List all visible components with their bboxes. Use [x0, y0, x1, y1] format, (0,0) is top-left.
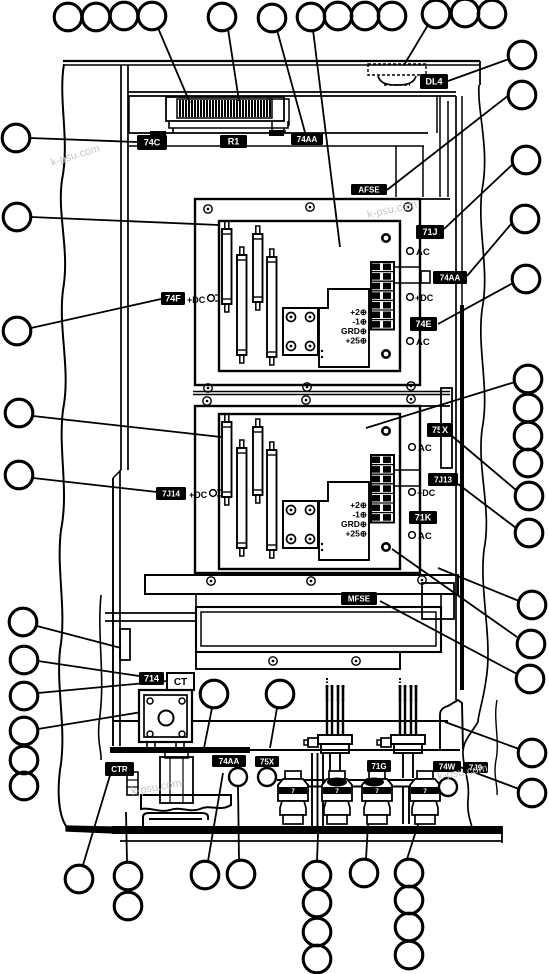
- svg-text:714: 714: [144, 674, 159, 684]
- callout balloon 4: [138, 2, 166, 30]
- leader line 4: [313, 30, 340, 247]
- cabinet front band upper: [128, 91, 456, 93]
- svg-text:AC: AC: [416, 247, 430, 258]
- callout balloon 19: [514, 365, 542, 393]
- resistor R1 hatched element: [177, 99, 272, 118]
- resistor R1 housing: [166, 97, 284, 121]
- bus bar horizontal: [277, 780, 424, 787]
- svg-text:AFSE: AFSE: [358, 185, 380, 194]
- callout balloon 24: [515, 519, 543, 547]
- callout balloon 53: [395, 913, 423, 941]
- label 7J14: [156, 487, 186, 500]
- contactor stack 1: [304, 678, 352, 778]
- svg-text:+2⊕: +2⊕: [350, 307, 367, 317]
- chassis shelf screws: [269, 657, 277, 665]
- upper module board screw top: [381, 233, 391, 243]
- node hole B: [258, 768, 276, 786]
- insulator cap ellipse 2: [327, 778, 347, 787]
- terminal DC lower: [409, 488, 436, 498]
- callout balloon 8: [324, 2, 352, 30]
- svg-text:7: 7: [335, 788, 339, 795]
- terminal AC upper1: [407, 247, 430, 258]
- resistor R1 left foot: [150, 131, 166, 137]
- label 75X bottom: [255, 756, 279, 767]
- lower module fuse cylinder 4: [267, 442, 277, 558]
- band line upper: [193, 391, 450, 393]
- leader line 32: [317, 834, 318, 861]
- label 75X right: [427, 423, 453, 437]
- leader line 23: [33, 478, 157, 492]
- callout balloon 50: [350, 859, 378, 887]
- callout balloon 12: [451, 0, 479, 27]
- leader line 18: [452, 764, 519, 789]
- resistor R1 right foot: [269, 130, 284, 136]
- upper module frame screws top: [204, 205, 212, 213]
- callout balloon 27: [516, 665, 544, 693]
- label MFSE: [341, 592, 377, 605]
- left torn edge secondary: [99, 595, 102, 760]
- right torn squiggle: [495, 700, 497, 795]
- vertical support c: [439, 96, 441, 197]
- callout balloon 32: [3, 317, 31, 345]
- label 74AA right: [433, 271, 467, 284]
- label 71K: [409, 511, 437, 524]
- terminal AC lower2: [409, 531, 432, 542]
- label CT: [167, 673, 194, 690]
- svg-text:7: 7: [291, 788, 295, 795]
- leader line 36: [270, 708, 277, 748]
- lower module fuse cylinder 1: [222, 414, 232, 505]
- upper module fuse cylinder 3: [253, 226, 263, 310]
- svg-text:+25⊕: +25⊕: [345, 336, 367, 346]
- callout balloon 3: [110, 2, 138, 30]
- leader line 24: [37, 626, 121, 648]
- insulator cap ellipse 3: [364, 778, 384, 787]
- insulator 4: [410, 771, 440, 824]
- leader line 30: [208, 773, 223, 861]
- right wall inner: [461, 96, 463, 305]
- svg-text:74AA: 74AA: [440, 273, 461, 282]
- base bar left taper: [66, 826, 112, 833]
- chassis shelf inner rect: [201, 612, 436, 646]
- upper module frame: [195, 199, 420, 385]
- lower module board screw top: [381, 426, 391, 436]
- callout balloon 13: [478, 0, 506, 28]
- svg-text:DL4: DL4: [425, 77, 442, 87]
- svg-text:-1⊕: -1⊕: [352, 510, 367, 520]
- label 7J9: [463, 762, 488, 773]
- callout balloon 25: [518, 591, 546, 619]
- DL4 dashed receptacle: [368, 64, 426, 75]
- callout balloon 28: [518, 739, 546, 767]
- shelf left arm bottom: [105, 620, 196, 622]
- callout balloon 23: [515, 482, 543, 510]
- terminal lug upper: [421, 271, 430, 283]
- svg-text:74F: 74F: [165, 294, 181, 304]
- leader line 12: [452, 436, 516, 490]
- callout balloon 14: [508, 41, 536, 69]
- svg-text:75X: 75X: [432, 425, 448, 435]
- leader line 9: [467, 223, 512, 276]
- solenoid skirt: [141, 795, 231, 811]
- svg-text:7J14: 7J14: [162, 489, 180, 498]
- leader line 14: [438, 568, 519, 601]
- callout balloon 39: [10, 746, 38, 774]
- callout balloon 41: [65, 865, 93, 893]
- base bar heavy: [112, 826, 502, 834]
- callout balloon 43: [114, 892, 142, 920]
- leader line 13: [458, 484, 516, 528]
- callout balloon 44: [191, 861, 219, 889]
- shelf right vertical: [436, 96, 438, 133]
- bent tube handle: [143, 813, 208, 826]
- lower module relay block: [283, 501, 318, 548]
- left wall line inner: [127, 65, 129, 470]
- vertical support a: [395, 146, 397, 197]
- callout balloon 51: [395, 859, 423, 887]
- band line lower: [193, 394, 450, 396]
- terminal AC upper2: [407, 337, 430, 348]
- leader line 3: [277, 30, 306, 136]
- leader line 11: [366, 382, 515, 428]
- upper module panel inner line: [399, 201, 401, 384]
- leader line 21: [31, 299, 161, 328]
- right side bracket: [440, 700, 463, 749]
- svg-text:7: 7: [423, 788, 427, 795]
- leader line 22: [33, 416, 221, 437]
- svg-text:AC: AC: [416, 337, 430, 348]
- svg-text:+DC: +DC: [189, 490, 208, 500]
- CT feet: [147, 742, 155, 750]
- band screws bottom: [207, 577, 215, 585]
- node hole C: [439, 778, 457, 796]
- base right end: [501, 826, 503, 843]
- label 74F: [161, 292, 185, 305]
- svg-text:71G: 71G: [371, 762, 386, 771]
- callout balloon 22: [514, 449, 542, 477]
- right wall bracket: [441, 388, 452, 468]
- right lower bracket: [422, 583, 454, 619]
- callout balloon 49: [303, 945, 331, 973]
- callout balloon 31: [3, 203, 31, 231]
- svg-text:74E: 74E: [415, 319, 431, 329]
- leader line 15: [392, 549, 517, 637]
- insulator 2: [322, 771, 352, 824]
- leader line 1: [158, 28, 190, 103]
- right torn edge wavy: [478, 85, 488, 722]
- cabinet top edge: [63, 60, 480, 62]
- leader line 29: [126, 812, 127, 862]
- leader line 8: [444, 164, 513, 229]
- wall terminal block: [127, 772, 138, 795]
- shelf side vertical right: [440, 594, 442, 607]
- label 74AA top: [291, 133, 323, 145]
- callout balloon 34: [5, 461, 33, 489]
- lower module terminal module: [319, 482, 369, 560]
- left torn edge wavy: [59, 64, 66, 826]
- chassis shelf front face: [196, 652, 400, 669]
- insulator 3: [362, 771, 392, 824]
- resistor R1 right bracket: [267, 99, 289, 131]
- callout balloon 16: [512, 146, 540, 174]
- current transformer CT body: [139, 690, 192, 742]
- callout balloon 17: [511, 205, 539, 233]
- callout balloon 46: [303, 861, 331, 889]
- svg-text:GRD⊕: GRD⊕: [341, 519, 367, 529]
- wall clip box: [120, 629, 130, 660]
- callout balloon 5: [208, 3, 236, 31]
- terminal lug wires lower: [394, 469, 421, 471]
- lower module dots: [321, 543, 323, 545]
- node hole A: [229, 768, 247, 786]
- callout balloon 48: [303, 918, 331, 946]
- leader line 6: [448, 59, 509, 81]
- label AFSE: [351, 184, 387, 195]
- svg-text:+25⊕: +25⊕: [345, 529, 367, 539]
- callout balloon 52: [395, 886, 423, 914]
- terminal lug wires upper: [394, 266, 421, 268]
- right wall upper: [455, 96, 457, 700]
- leader line 33: [366, 772, 371, 859]
- svg-text:+DC: +DC: [417, 488, 436, 498]
- leader line 26: [38, 681, 167, 693]
- contactor stack 2: [377, 678, 425, 778]
- callout balloon 40: [10, 772, 38, 800]
- upper module relay block: [283, 308, 318, 355]
- leader line 34: [407, 806, 424, 859]
- svg-text:+2⊕: +2⊕: [350, 500, 367, 510]
- callout balloon 47: [303, 889, 331, 917]
- callout balloon 11: [422, 0, 450, 28]
- chassis shelf: [196, 607, 441, 652]
- leader line 31: [238, 786, 239, 860]
- label 74AA bottom: [212, 755, 246, 767]
- shelf left arm top: [105, 612, 196, 614]
- cabinet top-right corner edge: [479, 61, 481, 85]
- callout balloon 2: [82, 3, 110, 31]
- 74F DC terminal: [187, 295, 219, 305]
- svg-text:AC: AC: [418, 443, 432, 454]
- svg-text:7J13: 7J13: [434, 475, 452, 484]
- terminal DC upper: [407, 293, 434, 303]
- callout balloon 1: [54, 3, 82, 31]
- terminal AC lower1: [409, 443, 432, 454]
- leader line 28: [83, 772, 111, 865]
- callout balloon 38: [10, 717, 38, 745]
- callout balloon 56: [266, 680, 294, 708]
- base bottom line: [120, 840, 502, 842]
- vertical support b: [422, 146, 424, 197]
- band screw row 2: [203, 397, 211, 405]
- lower module board screw bottom: [381, 542, 391, 552]
- left wall line outer: [120, 65, 122, 470]
- leader line 7: [387, 95, 509, 190]
- cabinet front band lower: [128, 95, 456, 97]
- label 71G: [367, 760, 391, 772]
- lower module inner board: [219, 414, 400, 569]
- label DL4: [420, 74, 448, 89]
- solenoid coil: [160, 751, 193, 803]
- upper module fuse cylinder 4: [267, 249, 277, 365]
- shelf left vertical: [128, 96, 130, 133]
- callout balloon 42: [114, 862, 142, 890]
- resistor R1 base bracket: [169, 121, 288, 133]
- label 74C: [137, 135, 167, 150]
- leader line 2: [228, 29, 239, 101]
- lower module panel inner line: [399, 408, 401, 570]
- label 74W: [433, 761, 461, 772]
- svg-text:-1⊕: -1⊕: [352, 317, 367, 327]
- callout balloon 36: [10, 646, 38, 674]
- right wall heavy: [460, 305, 464, 690]
- upper module fuse cylinder 1: [222, 221, 232, 312]
- leader line 16: [380, 601, 517, 674]
- svg-text:74AA: 74AA: [297, 135, 318, 144]
- svg-text:71J: 71J: [422, 227, 437, 237]
- upper module terminal strip: [371, 262, 394, 330]
- bus channel 2 lower: [403, 787, 409, 824]
- label 71J: [416, 225, 444, 239]
- right lower bracket line: [427, 593, 441, 595]
- leader line 20: [31, 217, 219, 225]
- callout balloon 15: [508, 81, 536, 109]
- shelf front line: [129, 145, 424, 147]
- svg-text:R1: R1: [228, 137, 240, 147]
- cabinet top edge inner: [63, 64, 480, 66]
- label 714: [139, 672, 164, 685]
- svg-text:+DC: +DC: [415, 293, 434, 303]
- callout balloon 7: [297, 3, 325, 31]
- callout balloon 9: [351, 2, 379, 30]
- callout balloon 10: [378, 2, 406, 30]
- mounting bar thin: [250, 749, 460, 751]
- callout balloon 45: [227, 860, 255, 888]
- insulator 1: [278, 771, 308, 824]
- callout balloon 55: [200, 680, 228, 708]
- DL4 socket body: [378, 76, 416, 85]
- callout balloon 54: [395, 941, 423, 969]
- upper module dots: [321, 350, 323, 352]
- lower module frame: [195, 406, 420, 573]
- leader line 19: [30, 138, 137, 142]
- upper module inner board: [219, 221, 400, 371]
- module bottom band: [145, 575, 458, 594]
- right torn edge lower: [463, 722, 478, 827]
- band screw row 1: [204, 384, 212, 392]
- leader line 10: [438, 283, 513, 324]
- svg-text:74AA: 74AA: [219, 757, 240, 766]
- callout balloon 29: [518, 779, 546, 807]
- callout balloon 33: [5, 399, 33, 427]
- svg-text:7: 7: [375, 788, 379, 795]
- lower module terminal strip: [371, 455, 394, 523]
- 7J14 DC terminal: [189, 490, 221, 500]
- svg-text:CTR: CTR: [111, 765, 128, 774]
- mounting bar heavy: [110, 747, 250, 753]
- svg-text:CT: CT: [174, 677, 187, 688]
- shelf edge line: [129, 132, 428, 134]
- callout balloon 21: [514, 422, 542, 450]
- callout balloon 20: [514, 394, 542, 422]
- label R1: [220, 135, 247, 148]
- callout balloon 35: [9, 608, 37, 636]
- left wall lower inner: [119, 470, 121, 746]
- callout balloon 37: [10, 682, 38, 710]
- leader line 5: [404, 25, 428, 65]
- leader line 27: [38, 709, 160, 729]
- lower chassis front edge: [112, 720, 448, 722]
- svg-text:MFSE: MFSE: [348, 594, 371, 603]
- shelf side vertical left: [195, 594, 197, 607]
- upper module terminal module: [319, 289, 369, 367]
- svg-text:GRD⊕: GRD⊕: [341, 326, 367, 336]
- left wall lower outer: [112, 478, 114, 746]
- bus channel vertical: [312, 753, 323, 826]
- callout balloon 26: [517, 630, 545, 658]
- label CTR: [105, 762, 134, 776]
- svg-text:71K: 71K: [415, 513, 432, 523]
- svg-text:75X: 75X: [260, 757, 275, 766]
- svg-text:74C: 74C: [144, 138, 161, 148]
- leader line 17: [445, 722, 519, 749]
- lower module fuse cylinder 3: [253, 419, 263, 503]
- upper module fuse cylinder 2: [237, 247, 247, 363]
- svg-text:AC: AC: [418, 531, 432, 542]
- left wall jog: [113, 470, 121, 478]
- lower module fuse cylinder 2: [237, 440, 247, 556]
- label 74E: [410, 317, 437, 331]
- callout balloon 6: [258, 4, 286, 32]
- leader line 35: [204, 708, 212, 748]
- label 7J13: [428, 473, 458, 486]
- callout balloon 18: [512, 265, 540, 293]
- vertical support d: [447, 101, 449, 197]
- callout balloon 30: [2, 124, 30, 152]
- leader line 25: [38, 661, 139, 676]
- svg-text:+DC: +DC: [187, 295, 206, 305]
- upper module board screw bottom: [381, 349, 391, 359]
